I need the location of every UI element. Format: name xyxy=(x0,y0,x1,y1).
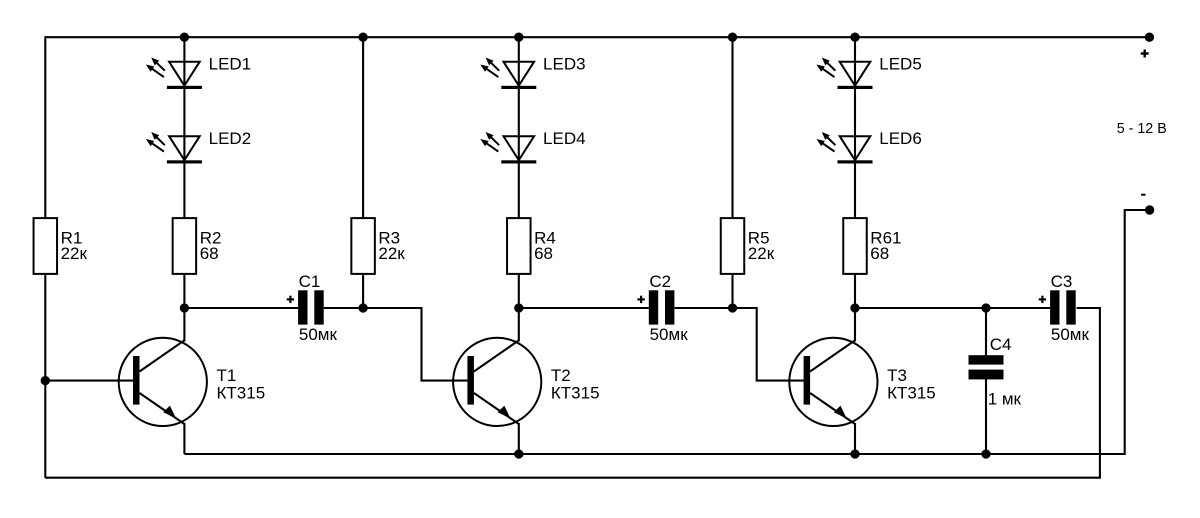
svg-text:22к: 22к xyxy=(748,244,775,263)
svg-text:68: 68 xyxy=(534,244,553,263)
svg-text:КТ315: КТ315 xyxy=(217,383,266,402)
svg-text:22к: 22к xyxy=(378,244,405,263)
svg-text:LED3: LED3 xyxy=(543,55,586,74)
svg-text:50мк: 50мк xyxy=(650,325,689,344)
svg-text:LED4: LED4 xyxy=(543,129,586,148)
svg-text:50мк: 50мк xyxy=(1051,325,1090,344)
svg-text:LED6: LED6 xyxy=(879,129,922,148)
svg-text:КТ315: КТ315 xyxy=(551,383,600,402)
svg-text:T1: T1 xyxy=(217,366,237,385)
svg-text:LED5: LED5 xyxy=(879,55,922,74)
svg-text:T3: T3 xyxy=(887,366,907,385)
svg-text:LED1: LED1 xyxy=(209,55,252,74)
svg-text:C1: C1 xyxy=(299,272,321,291)
svg-text:68: 68 xyxy=(870,244,889,263)
svg-text:T2: T2 xyxy=(551,366,571,385)
svg-text:22к: 22к xyxy=(61,244,88,263)
svg-text:C2: C2 xyxy=(649,272,671,291)
svg-text:C4: C4 xyxy=(990,335,1012,354)
svg-text:C3: C3 xyxy=(1051,272,1073,291)
svg-text:1 мк: 1 мк xyxy=(988,390,1022,409)
svg-text:50мк: 50мк xyxy=(299,325,338,344)
svg-text:КТ315: КТ315 xyxy=(887,383,936,402)
svg-text:5 - 12 В: 5 - 12 В xyxy=(1117,121,1167,137)
svg-text:LED2: LED2 xyxy=(209,129,252,148)
svg-text:68: 68 xyxy=(200,244,219,263)
